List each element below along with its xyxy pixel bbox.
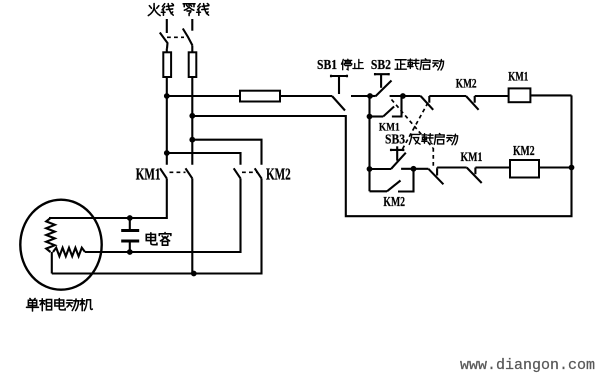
svg-text:www.diangon.com: www.diangon.com	[460, 357, 595, 374]
svg-text:SB3: SB3	[385, 132, 405, 147]
svg-text:KM2: KM2	[513, 144, 535, 159]
svg-text:KM1: KM1	[508, 70, 528, 84]
svg-text:SB2: SB2	[371, 57, 391, 72]
svg-text:KM2: KM2	[266, 165, 291, 184]
svg-text:KM1: KM1	[136, 165, 161, 184]
svg-text:SB1: SB1	[317, 57, 337, 72]
svg-text:KM2: KM2	[456, 77, 477, 91]
svg-text:KM1: KM1	[379, 121, 400, 134]
svg-text:KM2: KM2	[383, 195, 405, 210]
svg-text:KM1: KM1	[461, 151, 483, 165]
